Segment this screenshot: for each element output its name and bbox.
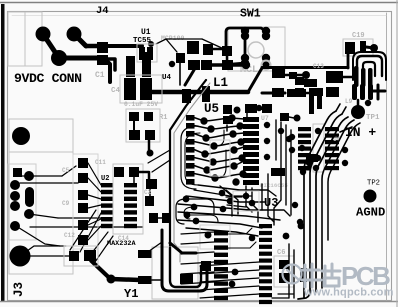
svg-text:AGND: AGND xyxy=(356,206,385,220)
svg-text:C12: C12 xyxy=(64,232,75,239)
svg-text:U4: U4 xyxy=(162,74,172,82)
svg-text:C13: C13 xyxy=(313,63,324,70)
svg-text:U7: U7 xyxy=(261,115,269,122)
svg-text:C5: C5 xyxy=(62,167,70,174)
svg-text:L1: L1 xyxy=(213,76,228,90)
svg-text:TP1: TP1 xyxy=(366,114,380,122)
svg-text:9VDC CONN: 9VDC CONN xyxy=(14,71,82,86)
svg-text:C9: C9 xyxy=(62,200,70,207)
svg-text:Y1: Y1 xyxy=(124,287,138,301)
svg-text:L9: L9 xyxy=(345,98,353,105)
svg-text:PIC16C55: PIC16C55 xyxy=(260,182,288,189)
svg-text:J3: J3 xyxy=(12,282,26,297)
svg-text:0.1uF 25V: 0.1uF 25V xyxy=(124,101,158,108)
svg-text:U3: U3 xyxy=(264,196,278,210)
svg-text:C4: C4 xyxy=(111,87,121,95)
svg-text:SW1: SW1 xyxy=(240,8,261,21)
svg-text:C14: C14 xyxy=(118,235,129,242)
svg-text:U1: U1 xyxy=(141,28,151,37)
svg-text:www.hqpcb.com: www.hqpcb.com xyxy=(303,287,394,299)
svg-text:C11: C11 xyxy=(95,159,106,166)
svg-text:J4: J4 xyxy=(96,5,109,17)
svg-text:TP2: TP2 xyxy=(367,180,380,188)
svg-text:U5: U5 xyxy=(204,102,219,116)
svg-text:U2: U2 xyxy=(101,175,109,183)
svg-text:C2: C2 xyxy=(144,189,152,196)
svg-text:C1: C1 xyxy=(95,71,105,80)
